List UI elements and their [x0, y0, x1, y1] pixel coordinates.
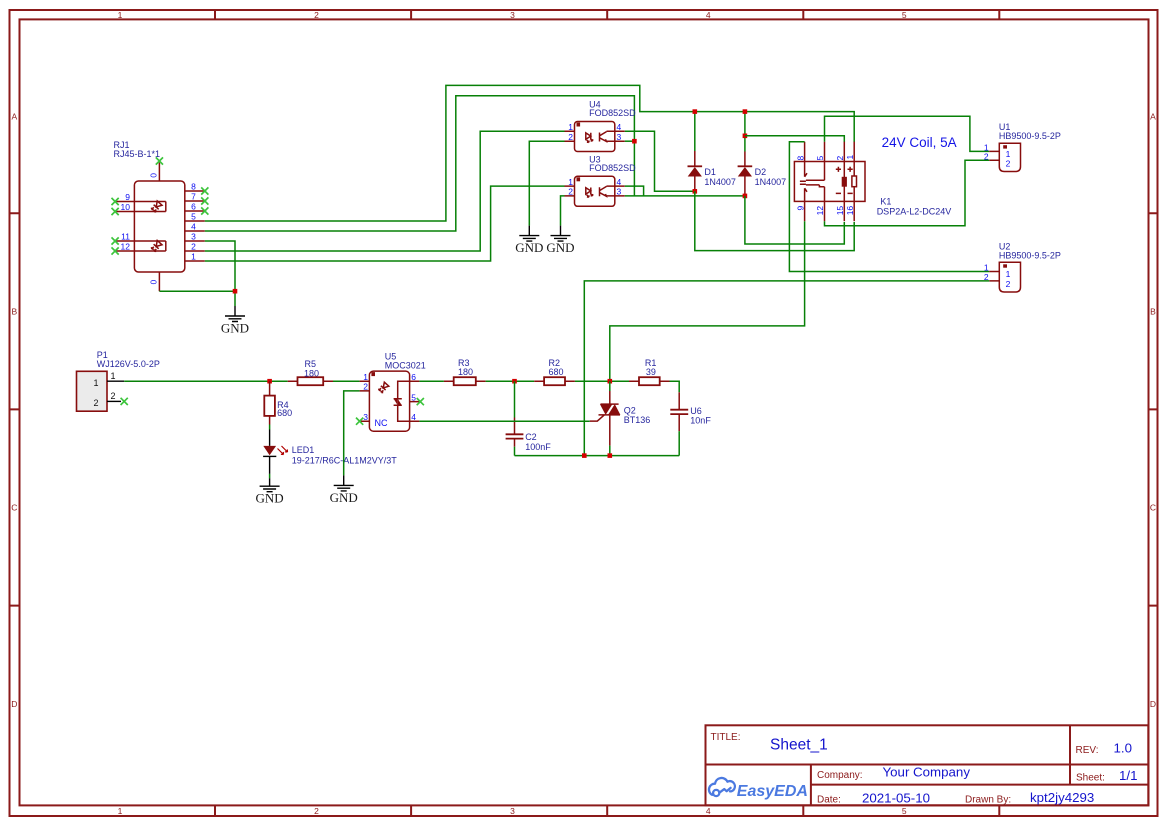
junction dot C2 tap [512, 379, 517, 384]
LED1 emission arrows [278, 446, 288, 455]
svg-text:D: D [11, 699, 17, 709]
wire relay pin12 to U1 pin2 [825, 160, 990, 226]
K1 pin 15 [843, 201, 845, 221]
U5 internal LED [378, 382, 389, 393]
no-connect X on RJ1 pin 7 [201, 197, 208, 204]
relay K1 body [794, 162, 865, 202]
U4 pin1 marker [577, 123, 581, 127]
svg-text:D1: D1 [704, 167, 716, 177]
resistor R1 body [639, 377, 660, 385]
svg-text:GND: GND [221, 321, 249, 336]
junction dot U4 pin3 [632, 139, 637, 144]
svg-text:Drawn By:: Drawn By: [965, 794, 1011, 805]
K1 pin 16 [853, 201, 855, 221]
ground GND under RJ1 [221, 306, 249, 336]
U4 internal LED arrows [587, 139, 593, 143]
svg-text:1: 1 [111, 371, 116, 381]
wire RJ1 pin1 to U3 pin1 [205, 186, 565, 261]
svg-text:1: 1 [118, 10, 123, 20]
svg-text:Sheet_1: Sheet_1 [770, 736, 828, 753]
resistor R3 body [454, 377, 476, 385]
wire U2 pin2 to bottom rail [584, 281, 989, 456]
svg-text:Your Company: Your Company [883, 765, 971, 780]
wire RJ1 pin5 to relay pin1 net (top rail) [205, 85, 854, 221]
diode D2 cathode bar [738, 165, 753, 167]
svg-text:R5: R5 [305, 359, 317, 369]
wire U3 pin4 jog to D2 anode net [625, 186, 644, 196]
capacitor U6 top lead [678, 392, 680, 409]
svg-text:FOD852SD: FOD852SD [589, 163, 636, 173]
U4 internal LED [586, 133, 591, 140]
triac Q2 gate [590, 415, 605, 421]
svg-text:D2: D2 [755, 167, 767, 177]
diode D2 leads [744, 112, 746, 152]
no-connect X on RJ1 pin 9 [112, 198, 119, 205]
svg-text:HB9500-9.5-2P: HB9500-9.5-2P [999, 251, 1061, 261]
svg-text:Date:: Date: [817, 794, 841, 805]
resistor R3 stubs [444, 380, 486, 382]
svg-text:2: 2 [568, 187, 573, 197]
svg-text:9: 9 [795, 206, 805, 211]
svg-text:DSP2A-L2-DC24V: DSP2A-L2-DC24V [877, 207, 952, 217]
svg-text:1: 1 [568, 122, 573, 132]
svg-text:12: 12 [121, 242, 131, 252]
no-connect X on RJ1 pin 6 [201, 207, 208, 214]
resistor R5 stubs [288, 380, 333, 382]
junction dot D2 top [743, 109, 748, 114]
svg-text:1: 1 [363, 372, 368, 382]
svg-text:24V Coil, 5A: 24V Coil, 5A [882, 135, 957, 150]
svg-text:15: 15 [835, 206, 845, 216]
title block outline [706, 725, 1149, 805]
svg-text:TITLE:: TITLE: [711, 732, 741, 743]
svg-text:3: 3 [617, 132, 622, 142]
svg-text:Company:: Company: [817, 770, 863, 781]
svg-text:1: 1 [1006, 149, 1011, 159]
resistor R1 stubs [629, 380, 670, 382]
wire D2 anode to relay pin15 [745, 196, 844, 244]
junction dot D1 top [693, 109, 698, 114]
wire RJ1 shield to GND junction [159, 290, 235, 292]
capacitor U6 plates [670, 410, 688, 414]
wire P1 pin1 to R5 [124, 380, 288, 382]
svg-text:2: 2 [191, 242, 196, 252]
no-connect X on U5 pin 5 [417, 398, 424, 405]
U5 internal triac [398, 381, 410, 421]
junction dot D2 branch to relay pin2 [743, 134, 748, 139]
LED1 bottom lead [269, 456, 271, 474]
svg-text:RJ45-B-1*1: RJ45-B-1*1 [114, 149, 161, 159]
K1 coil 2 (pins 1-16) [853, 162, 855, 202]
wire U3 pin2 to GND [561, 196, 565, 226]
P1 pin 1 stub [107, 380, 124, 382]
junction dot P1/R4/R5 [267, 379, 272, 384]
wire D1 anode to relay pin16 [695, 191, 854, 250]
U2 pin stubs [989, 272, 999, 281]
resistor R2 stubs [534, 380, 575, 382]
svg-text:NC: NC [375, 418, 388, 428]
U1 pin stubs [989, 151, 999, 160]
svg-text:2: 2 [984, 151, 989, 161]
svg-text:2: 2 [835, 156, 845, 161]
K1 pin 9 [805, 188, 807, 221]
wire U5 pin6 to R3 [419, 380, 444, 382]
wire relay pin9 to triac net [610, 221, 805, 381]
diode D1 cathode bar [688, 165, 703, 167]
svg-text:LED1: LED1 [292, 445, 315, 455]
U4 internal phototransistor [600, 131, 615, 141]
junction dot D1 anode [693, 189, 698, 194]
svg-text:MOC3021: MOC3021 [385, 360, 426, 370]
LED1 cathode bar [263, 455, 276, 457]
no-connect X on P1 pin 2 [121, 398, 128, 405]
border row letters right [1150, 111, 1156, 709]
svg-text:GND: GND [546, 240, 574, 255]
svg-text:6: 6 [411, 372, 416, 382]
wire U5 pin2 to GND [344, 391, 360, 476]
svg-text:D: D [1150, 699, 1156, 709]
svg-text:2: 2 [94, 398, 99, 408]
svg-text:FOD852SD: FOD852SD [589, 108, 636, 118]
wire bottom rail [515, 455, 680, 457]
svg-text:180: 180 [458, 367, 473, 377]
triac Q2 top and bottom bars [599, 404, 621, 415]
wire U4 pin2 to GND [529, 141, 564, 225]
svg-text:100nF: 100nF [525, 442, 551, 452]
LED1 triangle [263, 446, 276, 455]
svg-text:BT136: BT136 [624, 415, 651, 425]
svg-text:3: 3 [191, 232, 196, 242]
svg-text:C: C [11, 503, 17, 513]
U3 pin1 marker [577, 177, 581, 181]
wire RJ1 pin3 down to GND [205, 241, 235, 306]
wire U5 pin4 to Q2 gate [419, 420, 589, 422]
capacitor C2 top lead [514, 381, 516, 417]
RJ1 internal LED B symbol [150, 240, 162, 252]
RJ1 bottom shield pin 0 [158, 272, 160, 291]
triac Q2 top lead [609, 381, 611, 391]
svg-text:A: A [11, 111, 17, 121]
optotriac U5 body [369, 371, 409, 431]
RJ1 right pin numbers [191, 182, 196, 262]
svg-text:K1: K1 [880, 196, 891, 206]
svg-text:1.0: 1.0 [1114, 740, 1133, 755]
svg-text:7: 7 [191, 192, 196, 202]
connector U1 body [999, 143, 1020, 171]
svg-text:5: 5 [815, 156, 825, 161]
optocoupler U3 body [575, 176, 615, 206]
svg-text:9: 9 [125, 192, 130, 202]
svg-text:WJ126V-5.0-2P: WJ126V-5.0-2P [97, 359, 160, 369]
svg-text:2: 2 [568, 132, 573, 142]
wire relay pin8 to U2 pin1 [789, 142, 989, 272]
svg-text:1N4007: 1N4007 [755, 177, 787, 187]
junction dot rail/U2 net [582, 453, 587, 458]
svg-text:EasyEDA: EasyEDA [737, 783, 808, 800]
junction dot rail/Q2 [608, 453, 613, 458]
svg-text:5: 5 [191, 212, 196, 222]
junction dot shield/pin3 [233, 289, 238, 294]
no-connect X on U5 pin 3 [356, 418, 363, 425]
svg-text:8: 8 [795, 156, 805, 161]
K1 pin 1 [853, 142, 855, 162]
svg-text:A: A [1150, 111, 1156, 121]
svg-text:Q2: Q2 [624, 406, 636, 416]
svg-text:4: 4 [617, 177, 622, 187]
svg-text:GND: GND [330, 490, 358, 505]
svg-text:2: 2 [314, 806, 319, 816]
svg-text:680: 680 [549, 367, 564, 377]
wire R3 to C2 junction [486, 380, 535, 382]
RJ1 top shield pin 0 [158, 163, 160, 182]
ground GND under U3 pin2 [546, 226, 574, 256]
svg-text:2: 2 [1006, 159, 1011, 169]
svg-text:HB9500-9.5-2P: HB9500-9.5-2P [999, 131, 1061, 141]
diode D2 triangle [738, 167, 752, 177]
K1 pin 2 [843, 142, 845, 162]
RJ1 internal LED A leads [134, 202, 165, 212]
svg-text:5: 5 [411, 392, 416, 402]
wire relay pin5 to U1 pin1 [825, 116, 990, 151]
svg-text:19-217/R6C-AL1M2VY/3T: 19-217/R6C-AL1M2VY/3T [292, 456, 398, 466]
svg-text:3: 3 [617, 187, 622, 197]
connector U2 body [999, 262, 1020, 292]
K1 coil 1 (pins 2-15) [843, 162, 845, 202]
EasyEDA logo cloud [709, 778, 735, 796]
LED1 top lead [269, 430, 271, 446]
U5 pin stubs [360, 381, 420, 421]
P1 pin 2 stub [107, 400, 121, 402]
resistor R2 body [544, 377, 565, 385]
svg-text:12: 12 [815, 206, 825, 216]
svg-text:6: 6 [191, 202, 196, 212]
RJ1 internal LED A symbol [150, 201, 162, 213]
connector RJ1 body [134, 181, 184, 272]
wire RJ1 pin4 to U4 pin3 vertical [205, 96, 635, 231]
ground GND under U5 pin2 [330, 475, 358, 505]
K1 contact hinge bars [800, 181, 806, 184]
border row tick marks right [1149, 213, 1158, 605]
svg-text:16: 16 [845, 206, 855, 216]
title block logo cell divider [810, 765, 812, 806]
svg-text:B: B [11, 306, 17, 316]
triac Q2 bottom lead [609, 415, 611, 446]
junction dot D2 anode [743, 194, 748, 199]
svg-text:U6: U6 [690, 406, 702, 416]
junction dot R1/R2/Q2 [608, 379, 613, 384]
wire R5 to U5 pin1 [333, 380, 360, 382]
wire RJ1 pin2 to U4 pin1 [205, 131, 565, 251]
svg-text:1N4007: 1N4007 [704, 177, 736, 187]
svg-text:4: 4 [191, 222, 196, 232]
svg-text:5: 5 [902, 10, 907, 20]
svg-text:3: 3 [363, 412, 368, 422]
connector P1 body [77, 371, 108, 411]
capacitor U6 bottom lead [678, 414, 680, 431]
U1 pin1 marker [1003, 145, 1007, 148]
ground GND under U4 pin2 [515, 226, 543, 256]
svg-text:4: 4 [411, 412, 416, 422]
RJ1 right pin stubs 8..1 [185, 191, 205, 261]
K1 pin 12 [824, 187, 826, 222]
U3 internal LED arrows [587, 193, 593, 197]
svg-text:0: 0 [149, 173, 159, 178]
svg-text:2: 2 [363, 382, 368, 392]
svg-text:C: C [1150, 503, 1156, 513]
K1 contact blades [806, 180, 825, 187]
svg-text:2: 2 [314, 10, 319, 20]
svg-text:GND: GND [256, 491, 284, 506]
wire D2 branch to relay pin2 [745, 136, 844, 142]
svg-text:11: 11 [121, 232, 130, 242]
border column numbers top [118, 10, 907, 20]
svg-text:B: B [1150, 306, 1156, 316]
U3 pin stubs [565, 186, 625, 196]
title block row divider 1 [706, 764, 1149, 766]
no-connect X on RJ1 top pin [156, 157, 163, 164]
wire U4 pin4 to D1 anode [625, 131, 695, 191]
svg-text:3: 3 [510, 806, 515, 816]
title block row divider 2 [811, 784, 1148, 786]
svg-text:1: 1 [94, 378, 99, 388]
svg-text:4: 4 [706, 10, 711, 20]
U2 pin1 marker [1003, 264, 1007, 267]
R4 bottom lead [269, 416, 271, 425]
RJ1 left pin numbers [121, 192, 131, 252]
svg-text:1: 1 [118, 806, 123, 816]
diode D1 triangle [688, 167, 702, 177]
svg-text:3: 3 [510, 10, 515, 20]
resistor R5 body [298, 377, 324, 385]
wire U3 pin3 to D2 anode [625, 195, 745, 197]
svg-text:GND: GND [515, 240, 543, 255]
svg-text:0: 0 [149, 280, 159, 285]
border column tick marks top [215, 10, 999, 19]
wire U4 pin3 stub join [625, 140, 635, 142]
K1 pin 5 [824, 142, 826, 181]
svg-text:680: 680 [277, 408, 292, 418]
capacitor C2 plates [506, 434, 524, 438]
svg-text:180: 180 [304, 369, 319, 379]
svg-text:1/1: 1/1 [1119, 768, 1138, 783]
svg-text:2021-05-10: 2021-05-10 [862, 790, 930, 805]
K1 pin 8 [805, 142, 807, 177]
svg-text:C2: C2 [525, 432, 537, 442]
U3 internal phototransistor [600, 186, 615, 196]
svg-text:1: 1 [191, 252, 196, 262]
capacitor C2 bottom lead [514, 439, 516, 447]
svg-text:REV:: REV: [1076, 745, 1099, 756]
K1 coil 1 polarity marks [836, 167, 841, 194]
K1 coil 2 polarity marks [848, 167, 853, 194]
optocoupler U4 body [575, 122, 615, 152]
wire R1 to U6 [670, 381, 680, 392]
svg-text:2: 2 [111, 391, 116, 401]
title block REV column divider [1069, 725, 1071, 784]
resistor R4 stub top [269, 381, 271, 395]
border row letters left [11, 111, 17, 709]
RJ1 internal LED B leads [134, 241, 165, 251]
svg-text:4: 4 [617, 122, 622, 132]
svg-text:8: 8 [191, 182, 196, 192]
svg-text:4: 4 [706, 806, 711, 816]
svg-text:kpt2jy4293: kpt2jy4293 [1030, 790, 1094, 805]
svg-text:1: 1 [1006, 269, 1011, 279]
svg-text:Sheet:: Sheet: [1076, 773, 1105, 784]
svg-text:10nF: 10nF [690, 416, 711, 426]
border column tick marks bottom [215, 805, 999, 816]
ground GND under LED1 [256, 478, 284, 505]
no-connect X on RJ1 pin 10 [112, 208, 119, 215]
no-connect X on RJ1 pin 12 [112, 247, 119, 254]
svg-text:5: 5 [902, 806, 907, 816]
svg-text:10: 10 [121, 202, 131, 212]
U3 internal LED [586, 188, 591, 195]
RJ1 left pin stubs 9,10,11,12 [115, 202, 134, 252]
border row tick marks left [10, 213, 20, 605]
diode D1 leads [694, 112, 696, 151]
svg-text:2: 2 [1006, 279, 1011, 289]
U5 pin1 marker [371, 372, 375, 376]
border column numbers bottom [118, 806, 907, 816]
no-connect X on RJ1 pin 11 [112, 237, 119, 244]
no-connect X on RJ1 pin 8 [201, 187, 208, 194]
svg-text:39: 39 [646, 367, 656, 377]
wire R2 to triac junction [575, 380, 629, 382]
svg-text:1: 1 [568, 177, 573, 187]
svg-text:1: 1 [845, 155, 855, 160]
resistor R4 body [264, 396, 275, 416]
triac Q2 triangles [600, 404, 613, 415]
U4 pin stubs [565, 131, 625, 141]
